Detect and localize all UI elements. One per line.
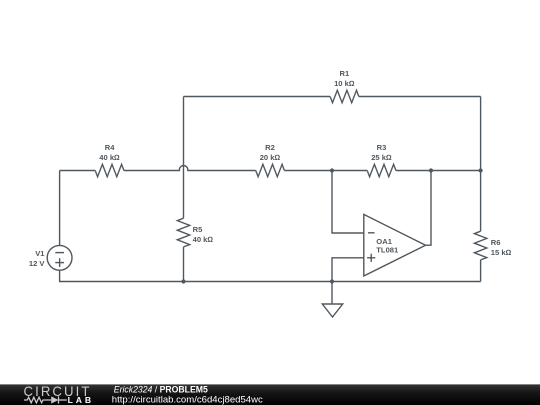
wire right rail upper	[480, 97, 482, 232]
wire left branch down to V1	[59, 171, 61, 246]
svg-text:R2: R2	[265, 143, 275, 152]
svg-text:R4: R4	[105, 143, 115, 152]
wire non-inverting input of op-amp to ground rail	[332, 258, 364, 282]
wire V1 bottom to bottom rail	[60, 270, 481, 281]
CircuitLab logo resistor-diode glyph	[24, 396, 67, 403]
voltage source V1	[47, 245, 72, 270]
footer bar	[0, 384, 540, 405]
node junction mid row to inverting input	[330, 168, 334, 172]
ground	[322, 282, 342, 318]
wire vertical from top rail down to R5	[183, 97, 185, 219]
wire top rail left segment	[184, 96, 331, 98]
wire op-amp output to feedback node	[426, 171, 431, 246]
svg-text:40 kΩ: 40 kΩ	[99, 153, 120, 162]
op-amp OA1	[364, 214, 426, 276]
wire right rail lower	[480, 260, 482, 282]
wire R5 bottom to bottom rail	[183, 247, 185, 282]
node junction mid row feedback	[429, 168, 433, 172]
svg-text:http://circuitlab.com/c6d4cj8e: http://circuitlab.com/c6d4cj8ed54wc	[112, 395, 263, 405]
svg-text:15 kΩ: 15 kΩ	[491, 248, 512, 257]
svg-text:40 kΩ: 40 kΩ	[193, 235, 214, 244]
svg-text:TL081: TL081	[376, 246, 399, 255]
wire mid row R4 to R2 with hop over vertical wire	[124, 165, 256, 170]
svg-text:LAB: LAB	[68, 395, 92, 405]
resistor R5	[177, 218, 189, 247]
wire mid row R3 to right rail	[396, 170, 481, 172]
svg-text:12 V: 12 V	[29, 259, 46, 268]
resistor R4	[95, 164, 124, 176]
svg-text:20 kΩ: 20 kΩ	[260, 153, 281, 162]
resistor R3	[367, 164, 396, 176]
svg-text:R6: R6	[491, 238, 501, 247]
node junction R5 at bottom rail	[181, 279, 185, 283]
svg-text:R5: R5	[193, 225, 203, 234]
wire inverting input of op-amp	[332, 171, 364, 234]
wire mid row left	[60, 170, 96, 172]
svg-text:R3: R3	[377, 143, 387, 152]
node junction mid row right rail	[479, 168, 483, 172]
wire mid row R2 to R3	[284, 170, 367, 172]
svg-text:10 kΩ: 10 kΩ	[334, 79, 355, 88]
svg-text:R1: R1	[340, 69, 350, 78]
svg-text:25 kΩ: 25 kΩ	[371, 153, 392, 162]
resistor R2	[256, 164, 285, 176]
svg-text:V1: V1	[35, 249, 45, 258]
resistor R1	[330, 90, 359, 102]
node junction ground at bottom rail	[330, 279, 334, 283]
resistor R6	[474, 231, 486, 260]
wire top rail right segment	[359, 96, 481, 98]
